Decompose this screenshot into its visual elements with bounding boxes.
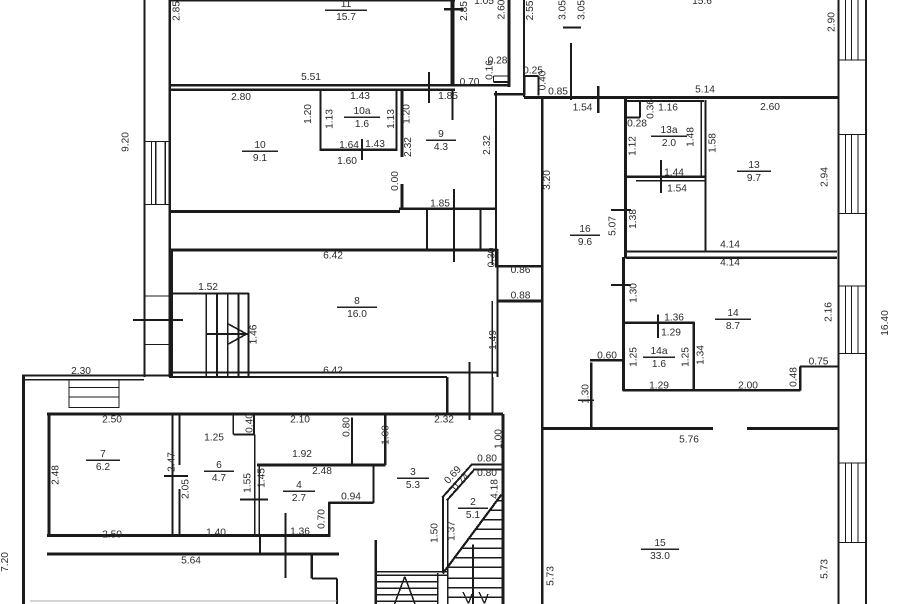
svg-text:2.16: 2.16 [824,302,835,322]
dimension 0.80 (rotated) [342,417,353,437]
room label 15 [641,538,679,562]
svg-text:7: 7 [100,449,106,460]
svg-text:2.50: 2.50 [102,530,122,541]
svg-text:1.54: 1.54 [573,103,593,114]
dimension 2.30 [71,366,91,377]
svg-text:1.36: 1.36 [290,527,310,538]
svg-text:4.14: 4.14 [720,240,740,251]
dimension 0.80 [477,454,497,465]
svg-text:1.34: 1.34 [696,345,707,365]
svg-text:15.7: 15.7 [336,12,356,23]
rooms 7/6/4 bottom wall [47,534,330,537]
svg-text:2.50: 2.50 [102,415,122,426]
room 13a bottom wall seam [636,180,705,182]
svg-text:2.32: 2.32 [482,135,493,155]
stub wall below room 8 left [446,377,448,414]
svg-text:4: 4 [296,480,302,491]
room label 14a [643,346,675,370]
room 14 bottom step vertical [799,367,801,391]
svg-text:1.58: 1.58 [708,133,719,153]
dimension 6.42 [323,251,343,262]
dimension 1.13 (rotated) [325,109,336,129]
svg-text:9: 9 [438,129,444,140]
door tick room 14a top [657,315,659,339]
dimension 1.52 [198,282,218,293]
svg-text:1.37: 1.37 [447,521,458,541]
lower stair top wall lower line [376,574,449,576]
dimension 1.16 [658,103,678,114]
stair upper-left box [171,293,249,377]
wall left exterior inner face [169,0,171,377]
niche box in top corridor [494,76,509,82]
wall 7/6 right face lower [179,489,181,536]
wall right exterior outer face [865,0,867,604]
stair left wall inner face [447,500,449,604]
room label 12 (cut) [692,0,712,7]
axis tick between rooms 10 and 11 [428,72,430,103]
svg-text:6.42: 6.42 [323,251,343,262]
dimension 0.25 [523,66,543,77]
room 6 top-right notch [233,414,254,435]
dimension 5.14 [695,85,715,96]
lobby wall lower (0.88) [498,300,543,303]
dimension 5.64 [181,556,201,567]
dimension 1.92 [292,449,312,460]
wall room 9 bottom [399,207,495,210]
room label 16 [570,224,600,248]
dimension 7.20 (rotated) [0,552,11,572]
svg-text:1.50: 1.50 [430,523,441,543]
door axis tick rooms 6/4 [240,498,268,500]
svg-text:1.36: 1.36 [664,313,684,324]
window R3 on right wall [839,286,867,354]
dimension 1.85 [430,199,450,210]
svg-text:2.55: 2.55 [525,0,536,20]
svg-text:2.32: 2.32 [434,415,454,426]
svg-text:2: 2 [470,497,476,508]
vestibule wall left below room 9 [426,209,428,250]
svg-text:8: 8 [354,296,360,307]
svg-text:10a: 10a [354,106,371,117]
svg-text:1.00: 1.00 [381,425,392,445]
room 4 jog bottom wall [329,501,374,503]
stair treads upper flight [448,501,503,567]
svg-text:3: 3 [410,467,416,478]
dimension 0.36 (rotated) [646,99,657,119]
room 2 top wall lower line [473,468,503,470]
dimension 1.48 (rotated) [686,127,697,147]
lower stair treads [376,582,437,602]
wall room 11 right side [451,0,455,85]
axis tick corridor 16 upper [611,209,631,211]
svg-text:1.48: 1.48 [686,127,697,147]
dimension 2.90 (rotated) [827,12,838,32]
svg-text:2.80: 2.80 [231,92,251,103]
svg-text:0.00: 0.00 [390,171,401,191]
dimension 5.76 [679,435,699,446]
dimension 2.55 (rotated) [525,0,536,20]
svg-text:16: 16 [579,224,591,235]
hall partition (0.80) [351,418,353,466]
dimension 1.45 (rotated) [257,468,268,488]
svg-text:0.40: 0.40 [245,413,256,433]
svg-text:1.44: 1.44 [664,168,684,179]
wall right of hall (1.00) [384,414,386,465]
dimension 0.94 [341,492,361,503]
room 4 jog left wall [328,502,330,537]
door jamb stub right of room 9 [451,89,453,120]
dimension 4.18 (rotated) [490,479,501,499]
room 15 top wall left part [542,427,713,430]
svg-text:1.55: 1.55 [243,473,254,493]
dimension 1.46 (rotated) [249,324,260,344]
wall room 8 top [169,248,498,251]
svg-text:6.2: 6.2 [96,462,110,473]
dimension 1.29 [649,381,669,392]
svg-text:0.28: 0.28 [627,119,647,130]
svg-text:1.13: 1.13 [325,109,336,129]
svg-text:1.29: 1.29 [649,381,669,392]
step wall vertical x=312 [311,554,313,579]
axis tick above stairwell [446,400,448,413]
stair separator line [472,545,474,604]
room 2 top wall upper line [471,464,503,466]
svg-text:9.20: 9.20 [121,132,132,152]
svg-text:1.6: 1.6 [355,119,369,130]
room label 4 [283,480,315,504]
svg-text:4.7: 4.7 [212,473,226,484]
wall room 8 left [170,249,173,377]
dimension 1.30 (rotated) [581,384,592,404]
wall segment in room 12 [570,43,572,100]
dimension 2.48 (rotated) [51,465,62,485]
svg-text:1.85: 1.85 [438,91,458,102]
dimension 1.54 [667,184,687,195]
svg-text:1.12: 1.12 [628,136,639,156]
svg-text:1.25: 1.25 [681,347,692,367]
svg-text:1.52: 1.52 [198,282,218,293]
svg-text:9.1: 9.1 [253,153,267,164]
dimension 6.42 [323,366,343,377]
svg-text:2.48: 2.48 [312,466,332,477]
dimension 0.40 (rotated) [245,413,256,433]
window R4 on right wall [839,463,867,543]
wall corridor 16 right lower / room 14a left [622,257,625,391]
stair left wall outer face [442,497,444,573]
dimension 2.48 [312,466,332,477]
dimension 1.60 [337,156,357,167]
dimension 1.50 (rotated) [430,523,441,543]
window L2 opening on left wall [144,296,170,345]
svg-text:2.30: 2.30 [71,366,91,377]
window R1 on right wall [839,0,867,60]
svg-text:0.48: 0.48 [789,367,800,387]
dimension 2.85 (rotated) [459,1,470,21]
dimension 1.25 (rotated) [681,347,692,367]
svg-text:1.64: 1.64 [339,140,359,151]
lobby wall upper (0.86) [495,265,542,268]
dimension 3.05 (rotated) [577,0,588,20]
svg-text:2.94: 2.94 [820,167,831,187]
room label 13 [737,160,771,184]
svg-text:1.92: 1.92 [292,449,312,460]
svg-text:10: 10 [254,140,266,151]
svg-text:1.25: 1.25 [629,347,640,367]
wall room 10 top [169,88,455,90]
dimension 1.36 [290,527,310,538]
dimension 3.20 (rotated) [542,170,553,190]
svg-text:0.70: 0.70 [317,509,328,529]
svg-text:8.7: 8.7 [726,321,740,332]
svg-text:1.30: 1.30 [629,283,640,303]
wall 7/6 left face [172,414,174,536]
wall below room 4 [259,536,261,554]
svg-text:1.16: 1.16 [658,103,678,114]
svg-text:1.40: 1.40 [206,528,226,539]
stair main diagonal [443,495,502,574]
svg-text:1.45: 1.45 [257,468,268,488]
wall corridor 16 right upper [624,98,627,258]
dimension 0.80 [477,468,497,479]
dimension 2.80 [231,92,251,103]
svg-text:2.10: 2.10 [290,415,310,426]
axis tick on left wall [133,319,183,321]
dimension 1.55 (rotated) [243,473,254,493]
stair upper-left arrow [228,324,247,345]
wall between 13 and 14 upper line [626,250,838,252]
faint cut line bottom left [30,600,337,602]
room 2 diagonal wall outer [442,465,471,498]
svg-text:2.60: 2.60 [760,102,780,113]
corridor wall x=591 [590,363,592,428]
step wall horizontal y=578 [312,577,337,579]
svg-text:5.14: 5.14 [695,85,715,96]
svg-text:5.64: 5.64 [181,556,201,567]
lower stair arrow [395,577,416,604]
dimension 4.14 [720,240,740,251]
svg-text:2.0: 2.0 [662,138,676,149]
dimension 1.30 (rotated) [629,283,640,303]
svg-text:1.05: 1.05 [474,0,494,7]
corridor bottom wall (0.60 passage) [590,359,623,361]
svg-text:6: 6 [216,460,222,471]
svg-text:2.7: 2.7 [292,493,306,504]
dimension 1.20 (rotated) [303,104,314,124]
dimension 1.58 (rotated) [708,133,719,153]
room 4 top wall [257,463,386,466]
wall wing top inner [22,379,144,381]
svg-text:1.30: 1.30 [581,384,592,404]
dimension 0.70 [460,77,480,88]
dimension 0.75 [809,357,829,368]
dimension 1.00 (rotated) [381,425,392,445]
wall x=542 corridor/room 15 left [541,98,543,604]
dimension 2.32 [434,415,454,426]
svg-text:5.07: 5.07 [608,216,619,236]
dimension 1.54 [573,103,593,114]
stair treads lower right [448,578,503,597]
svg-text:14a: 14a [651,346,668,357]
dimension 0.16 (rotated) [485,60,496,80]
stair flight divider wall [437,573,439,604]
svg-text:0.36: 0.36 [646,99,657,119]
dimension 1.49 (rotated) [488,330,499,350]
room 13a right wall inner face [704,100,706,252]
room 13a right wall outer face [700,100,702,178]
outer lower wall 5.64 [47,552,339,555]
svg-text:1.6: 1.6 [652,359,666,370]
room label 2 [458,497,488,521]
svg-text:13a: 13a [661,125,678,136]
dimension 1.25 (rotated) [629,347,640,367]
svg-text:2.60: 2.60 [497,0,508,19]
dimension 1.40 [206,528,226,539]
svg-text:16.40: 16.40 [880,310,891,336]
dimension 0.48 (rotated) [789,367,800,387]
svg-text:4.18: 4.18 [490,479,501,499]
dimension 0.70 (rotated) [317,509,328,529]
svg-text:7.20: 7.20 [0,552,11,572]
dimension 1.37 (rotated) [447,521,458,541]
dimension 4.14 [720,258,740,269]
stairwell right wall [501,414,504,604]
shaft box room 12 left [525,76,539,96]
dimension 2.05 (rotated) [181,479,192,499]
door axis tick lower wall [284,513,286,578]
svg-text:2.32: 2.32 [403,137,414,157]
svg-text:0.80: 0.80 [477,454,497,465]
door axis tick rooms 7/6 [164,475,188,477]
svg-text:1.29: 1.29 [661,328,681,339]
dimension 1.05 [474,0,494,7]
svg-text:0.30: 0.30 [487,247,498,267]
dimension 1.25 [204,433,224,444]
wall room 8 bottom upper line [169,372,498,374]
svg-text:2.05: 2.05 [181,479,192,499]
axis tick room 12 bottom [597,86,599,113]
dimension 1.38 (rotated) [628,209,639,229]
vestibule wall right below room 9 [479,209,481,250]
wall between rooms 10 and 9 lower [400,184,403,209]
door axis tick below room 8 [468,362,470,420]
dimension 2.32 (rotated) [403,137,414,157]
wall room 12 lower-left top [494,93,525,95]
wall room 11 bottom [169,84,510,86]
dimension 1.20 (rotated) [402,104,413,124]
step wall vertical x=337 [336,579,338,604]
svg-text:1.60: 1.60 [337,156,357,167]
room 7 left wall [47,413,50,537]
dimension 1.00 (rotated) [494,429,505,449]
svg-text:2.85: 2.85 [172,1,183,21]
dimension 2.60 (rotated) [497,0,508,19]
entry steps on wing wall [69,379,119,408]
svg-text:5.73: 5.73 [546,566,557,586]
room 14a right wall [692,322,695,390]
svg-text:3.20: 3.20 [542,170,553,190]
wall corridor right of room 11 [508,0,511,87]
svg-text:15: 15 [654,538,666,549]
svg-text:1.85: 1.85 [430,199,450,210]
axis tick on room 12 wall [563,26,581,28]
svg-text:15.6: 15.6 [692,0,712,7]
door tick room 10a [361,139,363,160]
room 4 right wall [372,465,374,504]
svg-text:5.3: 5.3 [406,480,420,491]
axis tick top corridor [444,8,463,10]
svg-text:16.0: 16.0 [347,309,367,320]
dimension 2.16 (rotated) [824,302,835,322]
svg-text:0.80: 0.80 [477,468,497,479]
dimension 1.12 (rotated) [628,136,639,156]
dimension 2.47 (rotated) [167,452,178,472]
room 14 bottom wall [623,389,801,392]
dimension 1.44 [664,168,684,179]
dimension 0.60 [597,351,617,362]
wall room 12 lower-left [495,91,497,265]
door tick room 13a bottom [660,160,662,193]
wall wing left exterior [22,375,25,604]
stub wall below room 8 right [491,377,493,414]
svg-text:2.00: 2.00 [738,381,758,392]
room 13a corner notch [627,101,640,118]
svg-text:0.75: 0.75 [809,357,829,368]
svg-text:0.86: 0.86 [511,265,531,276]
dimension 0.40 (rotated) [538,70,549,90]
svg-text:0.16: 0.16 [485,60,496,80]
wall room 8 bottom lower line [169,376,447,378]
wall room 10 bottom [169,210,400,213]
svg-text:33.0: 33.0 [650,551,670,562]
svg-text:2.47: 2.47 [167,452,178,472]
svg-text:1.38: 1.38 [628,209,639,229]
dimension 1.43 [365,139,385,150]
dimension 0.85 [548,87,568,98]
wall top of rooms 13/16 (5.14) [524,96,838,99]
dimension 2.00 [738,381,758,392]
lower stair top wall upper line [376,571,449,573]
dimension 1.43 [350,91,370,102]
dimension 0.28 [627,119,647,130]
wall between rooms 10 and 9 upper [400,89,403,157]
lower stair left wall [374,540,377,604]
wall room 12 left [523,0,525,97]
svg-text:0.88: 0.88 [511,291,531,302]
dimension 2.10 [290,415,310,426]
svg-text:1.00: 1.00 [494,429,505,449]
room 15 top wall right part [747,427,840,430]
dimension 2.50 [102,415,122,426]
svg-text:11: 11 [341,0,352,10]
wall 6/4 right face [258,465,260,536]
svg-text:5.1: 5.1 [466,510,480,521]
room 14 bottom step horizontal [800,366,838,368]
room 10a box [321,89,397,151]
wall wing top outer [22,375,169,377]
svg-text:0.40: 0.40 [538,70,549,90]
svg-text:1.54: 1.54 [667,184,687,195]
room 2 diagonal wall inner [447,471,474,501]
svg-text:1.25: 1.25 [204,433,224,444]
svg-text:6.42: 6.42 [323,366,343,377]
svg-text:4.14: 4.14 [720,258,740,269]
room label 10 [242,140,278,164]
axis tick corridor 16 lower [611,284,631,286]
dimension 5.07 (rotated) [608,216,619,236]
window R2 on right wall [839,135,867,214]
room label 9 [426,129,456,153]
svg-text:9.6: 9.6 [578,237,592,248]
